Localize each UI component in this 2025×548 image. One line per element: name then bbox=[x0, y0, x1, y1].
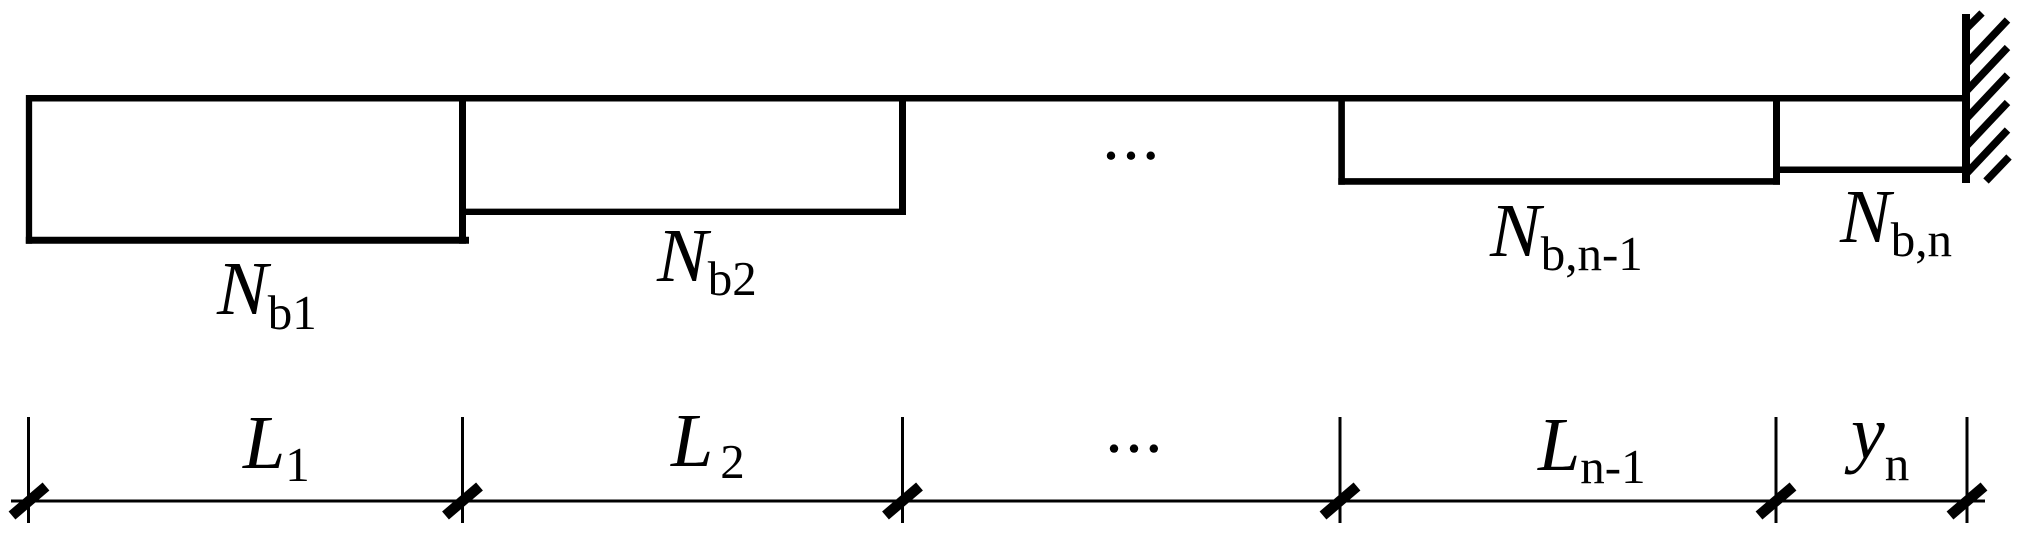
force block N_b1 left edge bbox=[26, 95, 32, 244]
force block N_b,n-1 bottom edge bbox=[1338, 178, 1780, 185]
svg-text:yn: yn bbox=[1844, 391, 1909, 491]
dimension tick 6 bbox=[1966, 417, 1969, 523]
svg-text:Nb1: Nb1 bbox=[216, 247, 317, 340]
slash mark 4 bbox=[1323, 487, 1357, 516]
ellipsis dots on bar bbox=[1107, 152, 1155, 160]
svg-text:L1: L1 bbox=[242, 401, 310, 492]
dimension line bbox=[11, 500, 1985, 503]
force block N_b1 bottom edge bbox=[26, 237, 469, 244]
svg-text:Nb,n: Nb,n bbox=[1839, 175, 1952, 267]
svg-text:Nb,n-1: Nb,n-1 bbox=[1489, 189, 1643, 281]
svg-text:L2: L2 bbox=[670, 399, 745, 489]
dimension tick 5 bbox=[1775, 417, 1778, 523]
step edge between N_b,n-1 and N_b,n bbox=[1773, 95, 1780, 185]
force block N_b2 right edge bbox=[899, 95, 906, 215]
dimension tick 4 bbox=[1339, 417, 1342, 523]
bar top chord line bbox=[26, 95, 1969, 102]
step edge between N_b1 and N_b2 bbox=[459, 95, 466, 244]
dimension tick 3 bbox=[901, 417, 904, 523]
dimension tick 1 bbox=[27, 417, 30, 523]
slash mark 5 bbox=[1759, 487, 1793, 516]
fixed support hatching bbox=[1966, 13, 2009, 181]
force block N_b2 bottom edge bbox=[459, 209, 906, 215]
slash mark 3 bbox=[886, 487, 920, 516]
ellipsis dots on dimension line bbox=[1110, 444, 1158, 452]
dimension tick 2 bbox=[461, 417, 464, 523]
svg-text:Nb2: Nb2 bbox=[656, 214, 757, 306]
slash mark 6 bbox=[1950, 487, 1984, 516]
fixed support wall line bbox=[1962, 14, 1970, 183]
force block N_b,n-1 left edge bbox=[1338, 95, 1345, 185]
force block N_b,n bottom edge bbox=[1773, 167, 1969, 174]
slash mark 2 bbox=[446, 487, 480, 516]
svg-text:Ln-1: Ln-1 bbox=[1537, 403, 1646, 494]
slash mark 1 bbox=[12, 487, 46, 516]
